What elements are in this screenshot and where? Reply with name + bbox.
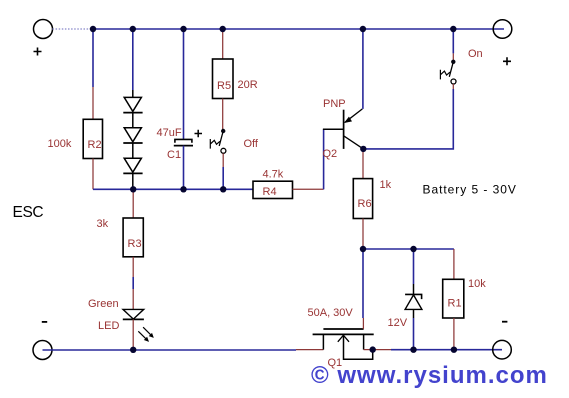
svg-text:Battery 5 - 30V: Battery 5 - 30V <box>423 183 517 197</box>
wire LED bottom lead <box>132 319 134 349</box>
terminal BAT- <box>493 340 512 359</box>
wire Off switch bottom lead <box>222 153 224 189</box>
label 100k <box>48 138 72 150</box>
label Battery 5 - 30V <box>423 183 517 197</box>
svg-text:Q2: Q2 <box>323 148 338 160</box>
node top rail junction x363 <box>360 26 366 32</box>
wire R4 to Q2 base <box>293 129 324 189</box>
node top rail junction x133 <box>130 26 136 32</box>
wire mid rail <box>93 188 253 190</box>
wire R1 top lead <box>453 249 455 279</box>
label copyright www.rysium.com <box>311 362 548 389</box>
label LED <box>98 320 119 332</box>
label PNP <box>323 98 346 110</box>
node gate rail junction x413 <box>410 246 416 252</box>
wire zener top lead <box>413 249 415 294</box>
wire R2 branch upper <box>92 29 94 119</box>
svg-text:1k: 1k <box>380 179 392 191</box>
svg-text:On: On <box>468 48 483 60</box>
label 1k <box>380 179 392 191</box>
wire R6 bottom lead <box>362 219 364 250</box>
wire collector rail to On switch <box>363 89 453 149</box>
wire bottom rail right <box>373 349 502 351</box>
zener diode D4 12V <box>405 294 422 309</box>
svg-text:R1: R1 <box>448 298 462 310</box>
resistor R3 <box>123 218 143 257</box>
resistor R2 <box>83 119 102 158</box>
wire bottom rail left <box>43 349 324 351</box>
node mid rail junction x133 <box>130 186 136 192</box>
transistor Q2 base lead <box>323 128 344 130</box>
resistor R5 <box>213 59 234 99</box>
wire R3 bottom lead <box>132 257 134 310</box>
wire R6 top lead <box>362 149 364 179</box>
wire D1-D2 lead <box>132 113 134 128</box>
node top rail junction x183 <box>180 26 186 32</box>
diode D1 <box>123 97 142 112</box>
wire R1 bottom lead <box>453 318 455 350</box>
terminal ESC- <box>33 341 52 360</box>
label On <box>468 48 483 60</box>
node Q2 collector junction <box>360 146 366 152</box>
label Green <box>88 298 119 310</box>
wire R2 bottom lead <box>92 159 94 190</box>
label ESC <box>13 204 44 221</box>
wire Q1 gate lead <box>362 249 364 329</box>
svg-text:R4: R4 <box>263 186 277 198</box>
transistor Q2 <box>344 109 364 149</box>
node mid rail junction x183 <box>180 186 186 192</box>
svg-text:50A, 30V: 50A, 30V <box>308 307 354 319</box>
svg-text:Green: Green <box>88 298 119 310</box>
label 20R <box>238 79 258 91</box>
svg-text:12V: 12V <box>388 317 408 329</box>
label 12V <box>388 317 408 329</box>
label + (C1 polarity) <box>195 130 203 138</box>
terminal ESC+ <box>34 20 53 39</box>
svg-text:47uF: 47uF <box>157 127 182 139</box>
label 50A, 30V <box>308 307 354 319</box>
svg-text:R2: R2 <box>88 139 102 151</box>
wire R3 top lead <box>132 189 134 218</box>
svg-text:10k: 10k <box>468 278 486 290</box>
diode D2 <box>123 128 142 143</box>
label - (battery minus) <box>502 321 507 323</box>
wire Q2 emitter to top rail <box>362 29 364 109</box>
node mid rail junction x223 <box>220 186 226 192</box>
svg-text:LED: LED <box>98 320 119 332</box>
wire R5 bottom lead <box>222 99 224 131</box>
wire On switch bottom lead <box>452 84 454 89</box>
label 3k <box>97 218 109 230</box>
wire R5 top lead <box>222 29 224 59</box>
node top rail junction x453 <box>450 26 456 32</box>
wire D2-D3 lead <box>132 143 134 158</box>
node bottom rail junction x413 <box>410 347 416 353</box>
switch S2 Off <box>210 129 226 154</box>
label + (battery plus) <box>503 57 511 65</box>
node top rail junction x222 <box>220 26 226 32</box>
wire diode branch bottom <box>132 173 134 189</box>
svg-text:R3: R3 <box>128 238 142 250</box>
node bottom rail junction x372 <box>370 346 376 352</box>
terminal BAT+ <box>493 20 512 39</box>
svg-text:© www.rysium.com: © www.rysium.com <box>311 362 548 389</box>
label - (ESC minus) <box>42 321 47 323</box>
resistor R6 <box>353 179 372 219</box>
wire gate node rail <box>363 248 454 250</box>
wire diode branch top <box>132 29 134 97</box>
svg-text:100k: 100k <box>48 138 72 150</box>
label 4.7k <box>263 169 284 181</box>
label 10k <box>468 278 486 290</box>
label Off <box>244 138 259 150</box>
node top rail junction x93 <box>90 26 96 32</box>
svg-text:4.7k: 4.7k <box>263 169 284 181</box>
svg-text:3k: 3k <box>97 218 109 230</box>
LED D5 green <box>123 309 154 341</box>
wire top rail <box>93 28 504 30</box>
mosfet Q1 <box>313 329 374 359</box>
wire On branch top lead <box>452 29 454 60</box>
label + (ESC plus) <box>34 48 42 56</box>
wire dashed from ESC+ to node <box>53 28 93 30</box>
svg-text:C1: C1 <box>167 149 181 161</box>
resistor R4 <box>253 181 293 198</box>
node bottom rail junction x133 <box>130 347 136 353</box>
svg-text:PNP: PNP <box>323 98 346 110</box>
diode D3 <box>123 158 142 173</box>
svg-text:R6: R6 <box>358 198 372 210</box>
switch S1 On <box>440 60 456 84</box>
capacitor C1 <box>157 127 194 161</box>
svg-text:R5: R5 <box>217 80 231 92</box>
node gate rail junction x363 <box>360 246 366 252</box>
node bottom rail junction x453 <box>451 347 457 353</box>
label Q2 <box>323 148 338 160</box>
label Q1 <box>328 357 343 369</box>
resistor R1 <box>443 279 464 318</box>
svg-text:20R: 20R <box>238 79 258 91</box>
svg-text:ESC: ESC <box>13 204 44 221</box>
svg-text:Off: Off <box>244 138 259 150</box>
wire C1 bottom lead <box>183 146 185 190</box>
wire zener bottom lead <box>413 309 415 349</box>
wire C1 branch top <box>183 29 185 139</box>
